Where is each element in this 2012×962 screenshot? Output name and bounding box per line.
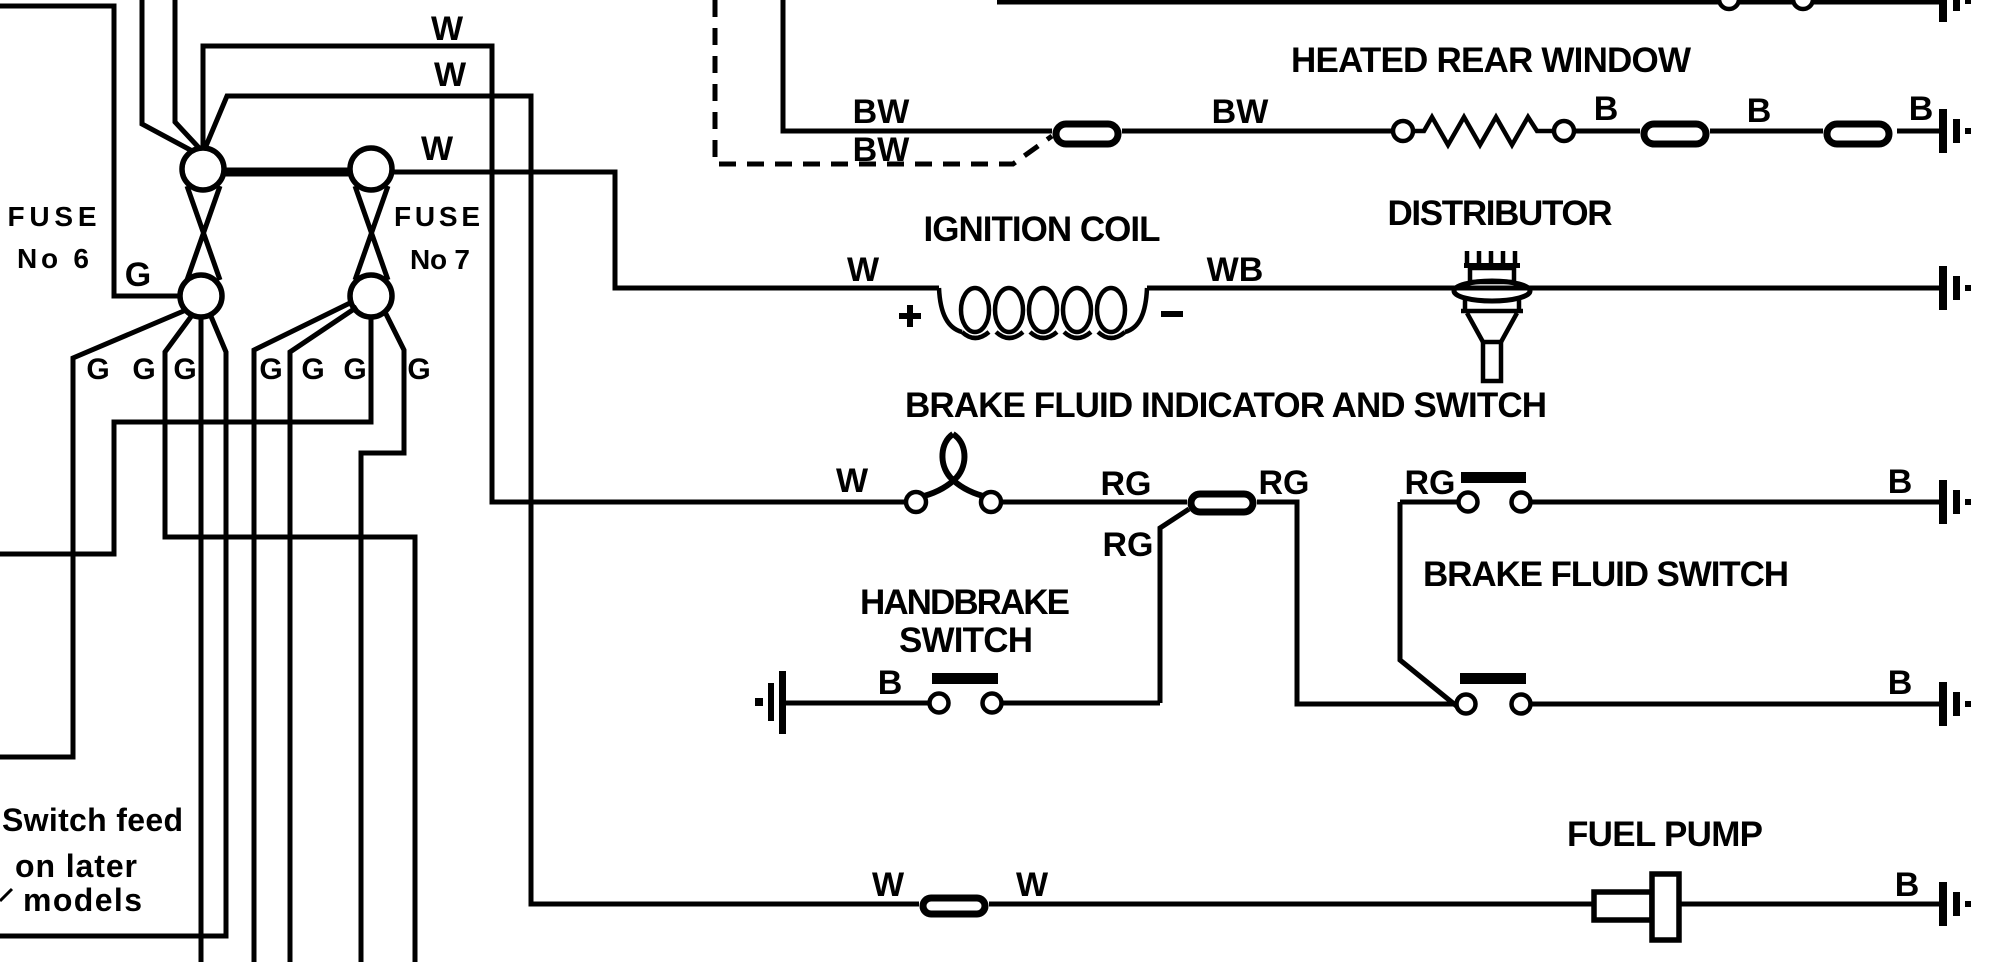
svg-text:BW: BW	[1212, 93, 1270, 131]
svg-text:HANDBRAKE: HANDBRAKE	[860, 583, 1070, 622]
fuse No 7 element	[355, 186, 388, 280]
svg-text:BRAKE FLUID SWITCH: BRAKE FLUID SWITCH	[1423, 555, 1789, 594]
wire B	[1574, 129, 1640, 134]
brake fluid indicator lamp loop	[924, 434, 983, 496]
handbrake switch contact left	[930, 694, 949, 713]
label FUSE No 7	[394, 201, 480, 275]
ground handbrake switch	[755, 671, 786, 734]
wire G from fuse No 6 straight down	[199, 317, 204, 962]
fuse No 6 top terminal	[182, 148, 224, 190]
svg-text:BW: BW	[853, 93, 911, 131]
svg-text:W: W	[836, 462, 869, 500]
connector C4 brake fluid	[1191, 494, 1253, 512]
wire BW solid from top	[783, 0, 1052, 131]
svg-text:FUSE: FUSE	[8, 201, 97, 232]
svg-text:G: G	[173, 353, 196, 386]
svg-text:RG: RG	[1101, 465, 1152, 503]
svg-text:B: B	[1594, 90, 1619, 128]
brake fluid indicator contact right	[981, 492, 1001, 512]
svg-text:B: B	[1888, 463, 1913, 501]
wire RG to handbrake switch	[1160, 509, 1189, 703]
svg-text:B: B	[1747, 92, 1772, 130]
wire G from fuse No 6 down-left	[0, 310, 186, 757]
svg-text:No 6: No 6	[17, 243, 89, 274]
brake fluid switch lower contact right	[1512, 695, 1531, 714]
ground fuel pump	[1939, 882, 1971, 926]
wire W from fuse No 7 to ignition coil	[392, 172, 939, 288]
svg-text:G: G	[407, 353, 430, 386]
handbrake switch bar	[932, 673, 998, 684]
svg-text:RG: RG	[1103, 526, 1154, 564]
switch contact top edge right	[1793, 0, 1813, 9]
svg-text:BW: BW	[853, 131, 911, 169]
label minus coil	[1161, 311, 1183, 317]
label FUSE No 6	[8, 201, 97, 274]
svg-text:IGNITION COIL: IGNITION COIL	[924, 210, 1161, 249]
wire handbrake to brake circuit	[1002, 701, 1160, 706]
wire B	[1710, 129, 1823, 134]
wire WB from coil to distributor and ground	[1147, 286, 1939, 291]
wire B to ground	[1531, 702, 1939, 707]
switch contact top edge left	[1719, 0, 1739, 9]
fuel pump symbol	[1594, 874, 1679, 940]
wire B to ground	[1679, 902, 1939, 907]
svg-text:W: W	[421, 130, 454, 168]
wire RG from connector to brake fluid switch lower	[1257, 502, 1457, 704]
brake fluid switch lower bar	[1460, 673, 1526, 684]
wire B to ground	[1897, 129, 1939, 134]
wire W to fuel pump	[989, 902, 1594, 907]
ignition coil winding	[939, 288, 1147, 338]
wire from top edge into fuse No 6	[142, 0, 196, 153]
svg-text:FUSE: FUSE	[394, 201, 480, 232]
distributor symbol	[1454, 251, 1530, 381]
heated rear window resistor contact right	[1554, 121, 1574, 141]
wire thick link between fuse tops	[222, 168, 352, 177]
svg-text:G: G	[259, 353, 282, 386]
heated rear window resistor contact left	[1393, 121, 1413, 141]
svg-text:B: B	[878, 664, 903, 702]
wire W from fuse No 6 to brake fluid indicator	[203, 46, 906, 502]
wire B handbrake	[786, 701, 930, 706]
fuse No 6 element	[187, 186, 220, 280]
svg-text:B: B	[1909, 90, 1934, 128]
svg-text:G: G	[125, 256, 151, 294]
svg-text:WB: WB	[1207, 251, 1264, 289]
brake fluid switch lower contact left	[1457, 695, 1476, 714]
wire B to ground	[1531, 500, 1939, 505]
wire G from fuse No 6	[0, 314, 226, 936]
svg-text:B: B	[1895, 866, 1920, 904]
ground heated rear window	[1939, 109, 1971, 153]
title HANDBRAKE SWITCH	[860, 583, 1070, 660]
svg-text:on later: on later	[15, 848, 137, 884]
wire BW to heated rear window switch	[1122, 129, 1393, 134]
label Switch feed on later models	[2, 802, 183, 918]
svg-text:W: W	[847, 251, 880, 289]
svg-text:No 7: No 7	[410, 244, 470, 275]
connector C2	[1644, 124, 1706, 144]
brake fluid switch arm	[1400, 502, 1459, 708]
brake fluid switch upper contact right	[1512, 493, 1531, 512]
fuse No 7 bottom terminal	[350, 275, 392, 317]
wire W from fuse No 6 to fuel pump	[206, 96, 919, 904]
svg-text:W: W	[1016, 866, 1049, 904]
ground distributor	[1939, 266, 1971, 310]
svg-text:G: G	[86, 353, 109, 386]
resistor heated rear window element	[1413, 117, 1554, 145]
wire RG to connector	[1001, 500, 1187, 505]
svg-text:RG: RG	[1259, 464, 1310, 502]
wire G from fuse No 7	[254, 302, 352, 962]
svg-text:W: W	[431, 10, 464, 48]
ground top edge	[1939, 0, 1971, 22]
svg-text:DISTRIBUTOR: DISTRIBUTOR	[1388, 194, 1613, 233]
svg-text:FUEL PUMP: FUEL PUMP	[1567, 815, 1763, 854]
connector C1 heated rear window feed	[1056, 124, 1118, 144]
fuse No 7 top terminal	[350, 148, 392, 190]
brake fluid switch upper bar	[1461, 472, 1526, 483]
connector C5 fuel pump feed	[923, 898, 985, 914]
svg-text:BRAKE FLUID INDICATOR AND SWIT: BRAKE FLUID INDICATOR AND SWITCH	[905, 386, 1547, 425]
svg-text:Switch feed: Switch feed	[2, 802, 183, 838]
svg-text:G: G	[301, 353, 324, 386]
labels G row	[86, 353, 430, 386]
label plus coil	[899, 305, 921, 327]
wire G feed from left to fuse No 6	[0, 6, 181, 296]
wire from top edge into fuse No 6	[175, 0, 201, 150]
wire G from fuse No 6	[165, 314, 415, 962]
handbrake switch contact right	[983, 694, 1002, 713]
svg-text:B: B	[1888, 664, 1913, 702]
svg-text:models: models	[23, 882, 142, 918]
svg-text:RG: RG	[1405, 464, 1456, 502]
wire BW dashed (later models)	[715, 0, 1052, 164]
wire G from fuse No 7	[290, 307, 357, 962]
svg-text:G: G	[132, 353, 155, 386]
tick mark before models	[0, 889, 12, 901]
ground brake fluid switch lower	[1939, 682, 1971, 726]
wire top edge circuit	[997, 0, 1939, 5]
ground brake fluid switch upper	[1939, 480, 1971, 524]
svg-text:G: G	[343, 353, 366, 386]
brake fluid switch upper contact left	[1459, 493, 1478, 512]
svg-text:W: W	[434, 56, 467, 94]
fuse No 6 bottom terminal	[180, 275, 222, 317]
svg-text:HEATED REAR WINDOW: HEATED REAR WINDOW	[1291, 41, 1691, 80]
svg-text:SWITCH: SWITCH	[899, 621, 1033, 660]
brake fluid indicator contact left	[906, 492, 926, 512]
wire G from fuse No 7 to left edge	[0, 317, 371, 554]
wire RG to brake fluid switch upper	[1400, 500, 1458, 505]
wire G from fuse No 7	[361, 312, 404, 962]
connector C3	[1827, 124, 1889, 144]
svg-text:W: W	[872, 866, 905, 904]
